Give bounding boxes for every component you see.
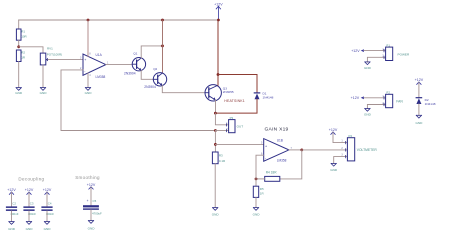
wire Q3 emitter down [215, 100, 217, 113]
node junction Q3 collector / D1 [217, 73, 220, 76]
svg-text:FAN: FAN [396, 100, 403, 104]
svg-text:Q2: Q2 [153, 67, 157, 71]
wire +12V top rail [19, 19, 219, 21]
svg-text:2N3904: 2N3904 [144, 85, 156, 89]
resistor R5 1R [253, 186, 264, 197]
wire collectors to rail [162, 20, 164, 73]
connector P1 POWER [382, 44, 410, 61]
svg-text:GND: GND [415, 121, 423, 125]
svg-text:P2: P2 [386, 91, 390, 95]
svg-text:1N4148: 1N4148 [263, 95, 274, 99]
svg-text:+12V: +12V [87, 183, 96, 187]
diode D1 1N4148 [254, 91, 273, 99]
wire power conn pin2 to ground [367, 57, 385, 62]
svg-text:POWER: POWER [398, 53, 410, 57]
svg-text:2N3904: 2N3904 [124, 72, 136, 76]
power flag +12V (fan conn) [351, 96, 386, 100]
svg-text:GND: GND [364, 113, 372, 117]
svg-text:GND: GND [330, 168, 338, 172]
svg-text:+12V: +12V [25, 188, 34, 192]
svg-text:R1: R1 [21, 30, 25, 34]
wire R3 to ground [214, 164, 216, 208]
power flag +12V (power conn) [351, 49, 385, 53]
connector P2 FAN [382, 91, 403, 108]
wire node A to RV1 top [19, 47, 43, 53]
node junction rail/Q1Q2 collector [161, 19, 164, 22]
wire D1 loop [218, 75, 257, 93]
ground (power conn) [364, 62, 372, 70]
svg-text:+12V: +12V [7, 188, 16, 192]
node junction sense / U1B pin5 [214, 143, 217, 146]
svg-text:P3: P3 [230, 116, 234, 120]
svg-text:+12V: +12V [351, 49, 360, 53]
svg-text:Decoupling: Decoupling [18, 176, 44, 181]
wire to OUT pin 1 [215, 113, 228, 125]
svg-text:GND: GND [88, 227, 96, 231]
svg-text:+12V: +12V [415, 78, 424, 82]
resistor R2 1R [16, 50, 25, 62]
svg-text:0.1R: 0.1R [219, 159, 226, 163]
svg-text:U1A: U1A [96, 53, 103, 57]
svg-text:+: + [84, 58, 86, 62]
svg-text:R2: R2 [21, 51, 25, 55]
svg-text:+12V: +12V [329, 128, 338, 132]
ground (below R5) [253, 208, 261, 217]
power flag +12V (D2) [415, 78, 424, 98]
transistor Q2 2N3904 [144, 67, 166, 89]
wire R2 to ground [18, 62, 20, 88]
wire sense node down to R3 [214, 131, 216, 153]
op-amp U1B LM358 GAIN X19 [261, 127, 293, 163]
wire node B to R5 [255, 179, 257, 186]
svg-text:R3: R3 [219, 154, 223, 158]
resistor R3 0.1R [212, 152, 226, 164]
svg-text:P4: P4 [349, 134, 353, 138]
wire U1A pin8 to rail [87, 20, 89, 56]
node junction rail/+12V/Q3 collector [217, 19, 220, 22]
svg-text:C4: C4 [48, 202, 52, 206]
node junction Q1 collector / Q2 collector [161, 45, 164, 48]
svg-text:10R: 10R [21, 35, 27, 39]
wire D1 anode to emitter node [215, 99, 257, 113]
svg-text:Smoothing: Smoothing [75, 175, 100, 180]
svg-text:R4 18R: R4 18R [266, 171, 278, 175]
node junction rail/U1A pin8 [87, 19, 90, 22]
svg-text:POT(100R): POT(100R) [47, 53, 62, 57]
ground (below R2) [15, 88, 23, 96]
wire voltmeter pin3 to ground [334, 157, 348, 164]
wire R5 to ground [255, 197, 257, 207]
svg-text:RV1: RV1 [47, 47, 53, 51]
svg-text:GND: GND [44, 227, 52, 231]
svg-text:VOLTMETER: VOLTMETER [357, 148, 378, 152]
svg-text:GND: GND [364, 66, 372, 70]
capacitor C4 100nF [41, 188, 54, 231]
power flag +12V (top) [214, 3, 223, 20]
svg-text:C5: C5 [93, 199, 97, 203]
svg-text:+12V: +12V [43, 188, 52, 192]
wire RV1 wiper to U1A pin3 [48, 59, 83, 61]
wire U1A pin2 feedback to sense node [61, 70, 215, 131]
wire U1A output to Q1 base [106, 64, 133, 66]
ground (voltmeter) [330, 163, 338, 172]
wire U1B output [289, 149, 302, 151]
svg-text:C2: C2 [12, 202, 16, 206]
svg-text:GND: GND [212, 213, 220, 217]
wire R1 to node A [18, 40, 20, 47]
svg-text:LM358: LM358 [96, 75, 106, 79]
diode D2 1N4148 [416, 98, 436, 107]
node A junction R1/R2/RV1 [17, 45, 20, 48]
svg-text:+: + [265, 144, 267, 148]
wire Q3 collector to rail [217, 20, 219, 75]
connector P4 VOLTMETER [341, 134, 377, 161]
svg-text:U1B: U1B [277, 139, 283, 143]
transistor Q3 2N3055 HEATSINK1 [205, 85, 245, 103]
wire sense to U1B pin5 [215, 143, 263, 145]
wire R4 to node B [256, 178, 265, 180]
wire feedback to R4 [280, 150, 302, 179]
ground (below U1A) [85, 88, 93, 96]
svg-text:GND: GND [15, 91, 23, 95]
wire U1A pin4 to ground [87, 73, 89, 88]
wire Q1 emitter to Q2 base [141, 70, 153, 79]
ground (fan conn) [364, 109, 372, 117]
capacitor C2 100nF [6, 188, 19, 231]
svg-text:GAIN X19: GAIN X19 [265, 127, 289, 133]
transistor Q1 2N3904 [124, 51, 146, 75]
power flag +12V (voltmeter) [329, 128, 348, 144]
svg-text:2N3055: 2N3055 [223, 90, 234, 94]
ground (below R3) [212, 208, 220, 217]
resistor R4 18R [265, 171, 280, 182]
svg-text:P1: P1 [386, 44, 390, 48]
wire Q1 collector [141, 46, 162, 58]
node junction Q3 emitter / D1 / OUT pin1 [214, 112, 217, 115]
capacitor C5 4700uF [83, 183, 102, 231]
svg-text:C3: C3 [30, 202, 34, 206]
wire U1B output to voltmeter pin2 [302, 149, 348, 151]
node B junction R4/R5/U1B pin6 [255, 178, 258, 181]
svg-text:GND: GND [253, 213, 261, 217]
svg-text:LM358: LM358 [277, 159, 287, 163]
svg-text:GND: GND [26, 227, 34, 231]
svg-text:HEATSINK1: HEATSINK1 [224, 99, 245, 103]
node junction sense / OUT pin2 [214, 129, 217, 132]
op-amp U1A LM358 [80, 52, 109, 78]
capacitor C3 100nF [23, 188, 36, 231]
svg-text:1N4148: 1N4148 [425, 102, 436, 106]
wire fan conn pin2 to ground [367, 105, 385, 109]
svg-text:4700uF: 4700uF [92, 212, 102, 216]
resistor R1 10R [16, 29, 27, 40]
ground (below RV1) [40, 88, 48, 96]
svg-text:GND: GND [85, 91, 93, 95]
connector P3 OUT [226, 116, 243, 133]
svg-text:Q1: Q1 [133, 51, 137, 55]
svg-text:+: + [87, 199, 89, 203]
wire D2 to ground [418, 104, 420, 115]
wire RV1 to ground [42, 65, 44, 88]
potentiometer RV1 POT(100R) [40, 47, 62, 65]
svg-text:+12V: +12V [351, 96, 360, 100]
ground (D2) [415, 115, 423, 125]
wire rail to R1 [18, 20, 20, 29]
svg-text:OUT: OUT [237, 125, 244, 129]
wire to OUT pin 2 [215, 130, 228, 132]
node junction U1B output [300, 149, 303, 152]
wire node B to U1B pin6 [256, 155, 264, 179]
svg-text:GND: GND [8, 227, 16, 231]
wire Q2 emitter to Q3 base [162, 86, 205, 93]
svg-text:GND: GND [40, 91, 48, 95]
